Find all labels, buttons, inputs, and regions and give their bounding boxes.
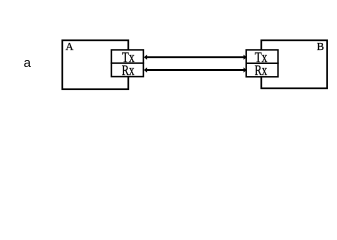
transceiver block B (Tx/Rx) [246,50,278,77]
Tx/Rx divider A [111,62,144,64]
node A box [62,40,128,89]
arrowhead left of Rx wire [144,67,147,72]
wire Tx(A)-Tx(B) [146,56,246,58]
Tx/Rx divider B [246,62,279,64]
svg-text:Rx: Rx [255,63,268,79]
svg-text:A: A [66,41,74,53]
svg-text:Rx: Rx [122,63,135,79]
wire Rx(A)-Rx(B) [146,69,246,71]
node B box [261,40,327,88]
arrowhead left of Tx wire [144,55,147,60]
arrowhead right of Tx wire [244,55,247,60]
svg-text:a: a [24,55,32,70]
svg-text:B: B [317,41,324,53]
arrowhead right of Rx wire [244,67,247,72]
transceiver block A (Tx/Rx) [111,50,143,77]
